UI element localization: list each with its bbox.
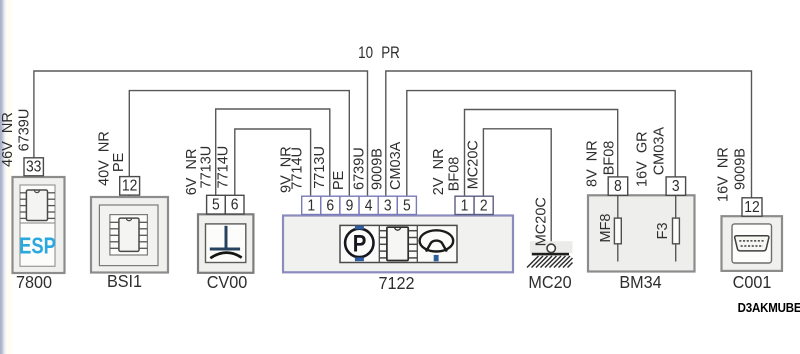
svg-text:8V NR: 8V NR xyxy=(585,140,601,187)
IC symbol inside 7122 xyxy=(379,227,417,260)
ground MC20 xyxy=(527,197,573,292)
svg-text:F3: F3 xyxy=(655,222,671,239)
svg-text:MC20C: MC20C xyxy=(533,197,549,246)
pin 33 xyxy=(24,158,43,176)
fuse MF8 wire xyxy=(617,195,619,261)
wire net 7714U : CV00 pin 6 to 7122 pin 1 xyxy=(235,129,311,196)
gauge symbol xyxy=(420,230,454,251)
svg-text:16V GR: 16V GR xyxy=(635,131,651,187)
svg-text:5: 5 xyxy=(403,197,411,215)
ground bar xyxy=(532,253,569,256)
svg-text:16V NR: 16V NR xyxy=(716,147,732,202)
IC symbol inside 7800 xyxy=(20,190,55,221)
pin 5 xyxy=(207,195,226,214)
svg-text:9009B: 9009B xyxy=(370,148,386,190)
svg-text:8: 8 xyxy=(614,177,622,195)
svg-text:46V NR: 46V NR xyxy=(0,112,16,167)
pin 12 xyxy=(742,198,762,216)
svg-text:BSI1: BSI1 xyxy=(107,271,142,291)
svg-text:MF8: MF8 xyxy=(598,214,614,243)
svg-text:10: 10 xyxy=(358,45,373,62)
7122 connector 1 pins 1 6 9 4 3 5 xyxy=(302,196,417,214)
svg-text:ESP: ESP xyxy=(19,233,56,258)
component CV00 (steering column switch) xyxy=(184,146,254,292)
svg-text:7714U: 7714U xyxy=(215,146,231,189)
svg-text:6739U: 6739U xyxy=(352,147,368,190)
svg-text:1: 1 xyxy=(461,197,469,215)
wire net 6739U : 7800 pin 33 to 7122 pin 4 xyxy=(34,71,368,196)
svg-text:6V NR: 6V NR xyxy=(184,149,200,196)
svg-text:D3AKMUBE: D3AKMUBE xyxy=(738,301,800,316)
svg-text:3: 3 xyxy=(384,197,392,215)
svg-text:6739U: 6739U xyxy=(17,109,33,152)
pin 6 xyxy=(225,195,244,214)
svg-text:PE: PE xyxy=(331,170,347,190)
component 7800 (ESP ECU) xyxy=(0,109,64,293)
svg-text:CM03A: CM03A xyxy=(651,127,667,176)
svg-text:3: 3 xyxy=(672,177,680,195)
pin 12 xyxy=(120,177,140,196)
svg-text:BF08: BF08 xyxy=(447,157,463,192)
component 7122 (instrument cluster) xyxy=(278,140,513,293)
svg-text:7800: 7800 xyxy=(16,272,52,292)
wire net CM03A : 7122 pin 5 to BM34 pin 3 xyxy=(407,91,675,197)
svg-text:MC20C: MC20C xyxy=(466,140,482,189)
fuse MF8 xyxy=(614,218,621,244)
fuse F3 wire xyxy=(675,195,677,261)
svg-text:12: 12 xyxy=(744,198,759,216)
svg-text:6: 6 xyxy=(231,196,239,214)
wire net PE : BSI1 pin 12 to 7122 pin 9 xyxy=(129,91,349,197)
parking brake symbol P xyxy=(345,226,373,262)
label 10 PR xyxy=(358,45,400,62)
svg-text:33: 33 xyxy=(26,158,41,176)
component BSI1 xyxy=(91,131,168,291)
svg-text:12: 12 xyxy=(122,177,137,195)
wire net BF08 : 7122 conn2 pin 1 to BM34 pin 8 xyxy=(465,110,618,197)
svg-text:1: 1 xyxy=(307,197,315,215)
svg-text:7713U: 7713U xyxy=(312,146,328,189)
wire BSI1 internal stub xyxy=(128,195,130,205)
column switch symbol xyxy=(210,226,242,258)
svg-text:7122: 7122 xyxy=(378,273,414,293)
svg-text:2V NR: 2V NR xyxy=(431,148,447,195)
svg-text:P: P xyxy=(353,230,367,257)
svg-text:MC20: MC20 xyxy=(528,272,571,292)
pin 8 xyxy=(608,177,628,195)
pin 3 xyxy=(666,177,686,195)
wire net 9009B : 7122 pin 3 to C001 pin 12 xyxy=(386,71,752,198)
svg-text:2: 2 xyxy=(480,197,488,215)
svg-text:9: 9 xyxy=(346,197,354,215)
svg-text:CM03A: CM03A xyxy=(388,141,404,190)
svg-text:CV00: CV00 xyxy=(207,272,248,292)
svg-text:PE: PE xyxy=(111,152,127,172)
symbol strip xyxy=(340,225,457,262)
svg-text:6: 6 xyxy=(326,197,334,215)
svg-text:4: 4 xyxy=(365,197,373,215)
svg-text:BF08: BF08 xyxy=(601,141,617,176)
IC symbol inside BSI1 xyxy=(110,218,147,251)
svg-text:5: 5 xyxy=(212,196,220,214)
wire net 7713U : CV00 pin 5 to 7122 pin 6 xyxy=(216,109,330,196)
connector symbol xyxy=(735,236,769,251)
svg-text:7714U: 7714U xyxy=(290,147,306,190)
component C001 (diagnostic connector) xyxy=(716,147,782,292)
7122 connector 2 pins 1 2 xyxy=(455,196,493,214)
svg-text:9009B: 9009B xyxy=(733,148,749,190)
svg-text:7713U: 7713U xyxy=(199,146,215,189)
svg-text:BM34: BM34 xyxy=(619,272,662,292)
svg-text:PR: PR xyxy=(381,45,400,62)
component BM34 (fuse box) xyxy=(585,127,695,293)
hatching xyxy=(527,256,573,268)
fuse F3 xyxy=(673,218,680,244)
svg-text:C001: C001 xyxy=(733,272,772,292)
ground terminal circle xyxy=(547,244,555,252)
wire net MC20C : 7122 conn2 pin 2 to ground MC20 xyxy=(483,129,551,244)
